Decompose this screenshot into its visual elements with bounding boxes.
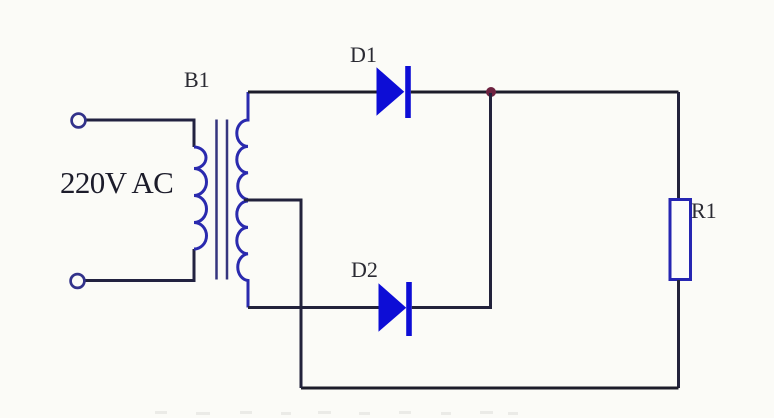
svg-text:D1: D1: [350, 42, 377, 67]
wire: center tap to bottom return: [244, 200, 301, 388]
transformer B1 primary winding: [194, 147, 207, 249]
diode D2 cathode bar: [406, 282, 412, 336]
wire: top AC terminal to primary top: [86, 120, 194, 147]
wire: R1 bottom to bottom-right corner: [677, 280, 680, 388]
transformer secondary upper winding: [237, 92, 248, 200]
wire: secondary top to D1 anode: [248, 91, 378, 94]
node A junction dot: [486, 87, 496, 97]
svg-text:D2: D2: [351, 257, 378, 282]
transformer secondary lower winding: [237, 201, 248, 308]
resistor R1: [670, 200, 691, 280]
faint caption remnant at bottom edge: [155, 411, 518, 415]
wire: bottom return: [301, 387, 679, 390]
diode D1 cathode bar: [405, 66, 411, 118]
wire: secondary bottom to D2 anode: [248, 306, 380, 309]
wire: D2 cathode to node A: [412, 93, 491, 308]
diode D1 triangle: [377, 68, 404, 114]
svg-text:R1: R1: [691, 198, 717, 223]
terminal (top AC input): [72, 114, 86, 128]
transformer core line 2: [226, 120, 229, 280]
transformer core line 1: [215, 120, 218, 280]
wire: bottom AC terminal to primary bottom: [85, 249, 194, 281]
terminal (bottom AC input): [71, 274, 85, 288]
svg-text:B1: B1: [184, 67, 210, 92]
svg-text:220V AC: 220V AC: [60, 165, 173, 200]
diode D2 triangle: [379, 284, 406, 330]
wire: D1 cathode to top-right corner: [411, 91, 679, 94]
wire: right side down to R1: [677, 92, 680, 199]
